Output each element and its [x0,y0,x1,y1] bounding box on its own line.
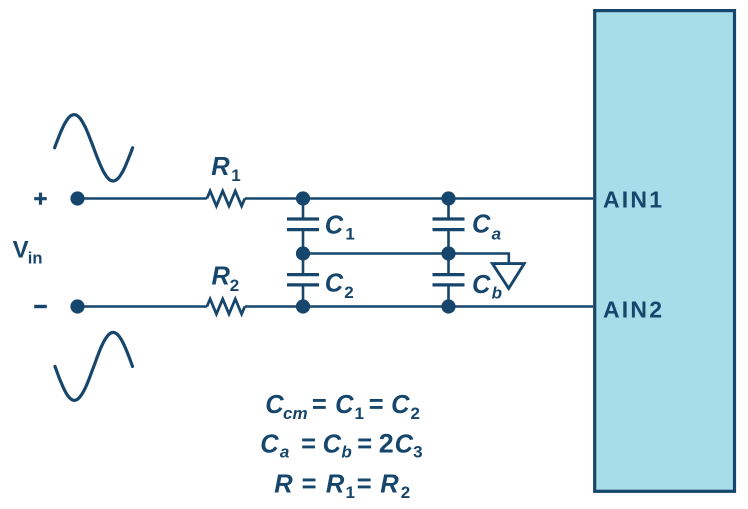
svg-text:R: R [212,263,231,291]
svg-text:1: 1 [345,224,354,243]
svg-text:C: C [265,391,284,419]
svg-text:C: C [325,270,344,298]
svg-text:3: 3 [413,442,422,461]
svg-text:C: C [323,430,342,458]
svg-text:R: R [274,471,293,499]
svg-text:=: = [357,430,372,458]
svg-text:R: R [211,153,230,181]
svg-text:V: V [13,236,29,263]
svg-text:C: C [395,430,414,458]
svg-text:C: C [472,271,491,299]
svg-text:1: 1 [355,404,364,423]
svg-text:=: = [301,430,316,458]
svg-text:C: C [335,391,354,419]
svg-text:R: R [380,471,399,499]
svg-text:C: C [325,211,344,239]
svg-text:=: = [357,471,372,499]
svg-text:a: a [492,224,501,243]
svg-text:C: C [391,391,410,419]
svg-text:R: R [326,471,345,499]
svg-text:2: 2 [411,404,420,423]
svg-text:AIN2: AIN2 [603,296,664,322]
svg-text:2: 2 [401,483,410,502]
svg-text:1: 1 [346,483,355,502]
svg-text:in: in [28,250,43,268]
svg-text:b: b [492,284,502,303]
svg-text:AIN1: AIN1 [603,187,664,213]
svg-text:2: 2 [379,428,394,458]
svg-text:b: b [341,443,351,462]
svg-text:C: C [260,430,279,458]
svg-text:1: 1 [231,166,240,185]
svg-text:a: a [280,443,289,462]
svg-text:cm: cm [283,404,308,423]
svg-text:2: 2 [230,276,239,295]
svg-text:=: = [312,391,327,419]
svg-text:2: 2 [344,283,353,302]
svg-text:C: C [472,211,491,239]
svg-text:=: = [369,391,384,419]
svg-text:=: = [302,471,317,499]
